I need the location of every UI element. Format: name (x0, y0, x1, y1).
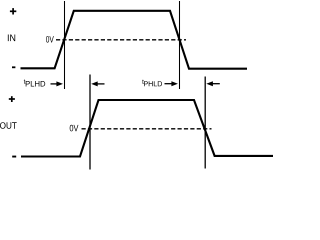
node OUT minus level label (12, 156, 16, 158)
wire OUT waveform (21, 100, 273, 157)
wire IN 0V dashed reference line (56, 39, 186, 41)
node IN label (8, 35, 15, 42)
wire tPLHD measurement line at IN rising crossing (64, 1, 66, 89)
wire IN waveform (21, 11, 248, 69)
wire tPLHD right-pointing arrow (51, 83, 59, 85)
wire tPHLD right-pointing arrow (165, 83, 173, 85)
wire OUT 0V dashed reference line (82, 128, 212, 130)
wire tPHLD measurement line at OUT falling crossing (204, 77, 206, 169)
wire tPHLD measurement line at IN falling crossing (179, 1, 181, 89)
node OUT 0V label (70, 125, 79, 132)
node IN minus level label (12, 66, 15, 68)
node tPLHD delay label (24, 79, 26, 83)
node OUT label (0, 122, 17, 129)
wire tPLHD measurement line at OUT rising crossing (89, 75, 91, 170)
node tPHLD delay label (142, 80, 144, 84)
wire tPLHD left-pointing arrow (91, 81, 98, 86)
node IN 0V label (46, 36, 54, 43)
node IN plus level label (10, 8, 16, 14)
wire tPHLD left-pointing arrow (206, 81, 213, 86)
node OUT plus level label (9, 96, 15, 102)
